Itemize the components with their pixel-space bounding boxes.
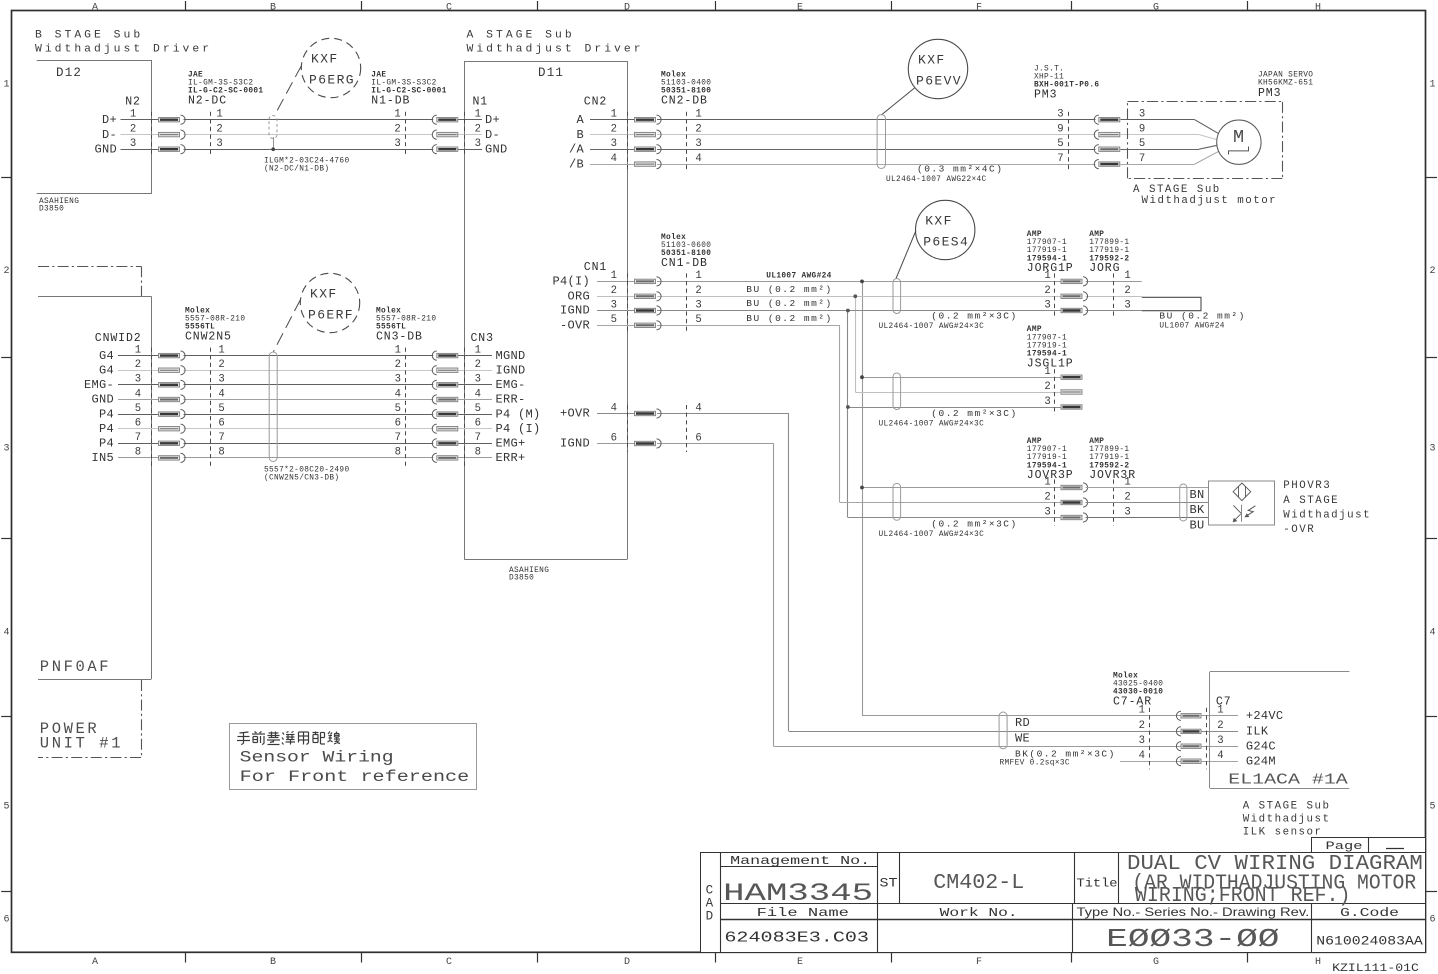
svg-text:KZIL111-01C: KZIL111-01C (1332, 963, 1419, 974)
svg-text:ERR-: ERR- (496, 393, 526, 407)
wire CNWID2-7 (P4) to CN3-7 (EMG+) (118, 443, 492, 445)
svg-text:AMP: AMP (1027, 326, 1042, 334)
svg-text:6: 6 (475, 418, 481, 430)
svg-text:1: 1 (1217, 705, 1223, 717)
svg-text:1: 1 (475, 109, 481, 121)
svg-text:B: B (270, 957, 276, 968)
svg-text:UNIT #1: UNIT #1 (40, 735, 123, 753)
svg-text:F: F (976, 2, 982, 13)
svg-text:For Front reference: For Front reference (240, 768, 470, 786)
connector label stack JAE N1-DB (371, 71, 446, 107)
svg-text:2: 2 (395, 359, 401, 371)
svg-text:EMG+: EMG+ (496, 437, 526, 451)
svg-text:Management No.: Management No. (730, 854, 870, 868)
svg-text:5: 5 (3, 802, 9, 813)
wire net -OVR (CN1-5 to JOVR3P-2) (597, 325, 1061, 502)
svg-text:JAE: JAE (371, 71, 386, 79)
svg-text:5: 5 (611, 314, 617, 326)
wire net D+ (N2-1 to N1-1) (121, 119, 483, 121)
svg-text:D: D (706, 910, 715, 924)
svg-text:P4(I): P4(I) (552, 275, 590, 289)
wires JOVR3R to sensor PHOVR3 (BN/BK/BU) (1086, 488, 1209, 518)
connector CN3 (driver side) with contacts CN3-DB (395, 332, 541, 466)
svg-text:8: 8 (218, 447, 224, 459)
svg-text:3: 3 (475, 374, 481, 386)
svg-text:177907-1: 177907-1 (1027, 239, 1067, 247)
svg-text:-OVR: -OVR (1283, 524, 1315, 536)
cable spec (0.3mm2 x4C) UL2464 (886, 164, 1003, 185)
svg-text:2: 2 (1044, 285, 1050, 297)
svg-text:177919-1: 177919-1 (1027, 454, 1067, 462)
svg-text:3: 3 (695, 138, 701, 150)
connector label stack J.S.T. PM3 (1034, 65, 1099, 101)
svg-text:IL-GM-3S-S3C2: IL-GM-3S-S3C2 (371, 80, 436, 88)
svg-text:3: 3 (1057, 109, 1063, 121)
svg-text:PNF0AF: PNF0AF (40, 658, 111, 676)
svg-text:2: 2 (130, 123, 136, 135)
svg-text:ERR+: ERR+ (496, 451, 526, 465)
svg-text:CM402-L: CM402-L (933, 872, 1024, 895)
svg-text:5: 5 (218, 403, 224, 415)
svg-text:3: 3 (218, 374, 224, 386)
svg-text:2: 2 (216, 123, 222, 135)
wire CNWID2-1 (G4) to CN3-1 (MGND) (118, 355, 492, 357)
svg-text:MGND: MGND (496, 349, 526, 363)
svg-text:4: 4 (1429, 628, 1435, 639)
svg-text:P6ERF: P6ERF (308, 307, 354, 322)
svg-text:9: 9 (1139, 123, 1145, 135)
svg-text:(0.3 mm²×4C): (0.3 mm²×4C) (917, 164, 1003, 175)
svg-text:KXF: KXF (918, 53, 946, 68)
svg-text:EL1ACA #1A: EL1ACA #1A (1228, 773, 1348, 789)
svg-text:N2: N2 (125, 96, 141, 109)
connector N2 (driver side) with contacts N2-DC (94, 96, 222, 158)
connector label stack Molex CN2-DB (661, 71, 711, 107)
svg-text:P4: P4 (99, 422, 114, 436)
svg-text:6: 6 (218, 418, 224, 430)
svg-text:+OVR: +OVR (560, 407, 590, 421)
svg-text:G.Code: G.Code (1340, 906, 1399, 920)
svg-text:E: E (797, 2, 803, 13)
svg-text:UL2464-1007 AWG#24×3C: UL2464-1007 AWG#24×3C (879, 323, 985, 331)
svg-text:2: 2 (1139, 720, 1145, 732)
svg-text:A STAGE: A STAGE (1283, 495, 1339, 507)
wire net +OVR (CN1-4 to C7-2) (597, 414, 1238, 732)
svg-text:JOVR3R: JOVR3R (1089, 469, 1136, 482)
svg-text:(0.2 mm²×3C): (0.2 mm²×3C) (931, 519, 1017, 530)
svg-text:IGND: IGND (560, 437, 590, 451)
svg-text:UL1007 AWG#24: UL1007 AWG#24 (766, 272, 831, 280)
svg-text:6: 6 (1429, 915, 1435, 926)
svg-text:P6ES4: P6ES4 (923, 234, 969, 249)
svg-text:3: 3 (475, 138, 481, 150)
svg-text:C: C (446, 2, 452, 13)
svg-text:KXF: KXF (310, 287, 338, 302)
cable marker oval CNW2N5/CN3-DB (264, 300, 350, 483)
wire color labels RD/WE/BK + cable spec (1000, 716, 1116, 768)
svg-text:ORG: ORG (567, 290, 590, 304)
svg-text:A: A (576, 113, 584, 127)
svg-text:ILK: ILK (1246, 725, 1269, 739)
svg-text:1: 1 (218, 344, 224, 356)
svg-text:IN5: IN5 (91, 451, 114, 465)
svg-text:51103-0400: 51103-0400 (661, 80, 711, 88)
svg-text:1: 1 (475, 344, 481, 356)
connector label stack AMP JOVR3R (1089, 438, 1136, 482)
connector label stack AMP JORG1P (1027, 231, 1074, 275)
svg-text:E: E (797, 957, 803, 968)
svg-text:Sensor Wiring: Sensor Wiring (240, 749, 394, 767)
svg-text:IL-GM-3S-S3C2: IL-GM-3S-S3C2 (188, 80, 253, 88)
svg-text:N1: N1 (473, 96, 489, 109)
cable marker oval JOVR cable (879, 483, 1018, 539)
svg-text:4: 4 (135, 388, 141, 400)
connector CN2 (driver side) with contacts CN2-DB (569, 96, 702, 173)
cable marker oval N2-DC/N1-DB (269, 66, 302, 152)
svg-text:2: 2 (1044, 491, 1050, 503)
svg-text:177899-1: 177899-1 (1089, 239, 1129, 247)
svg-text:2: 2 (3, 266, 9, 277)
svg-text:4: 4 (695, 153, 701, 165)
svg-text:624083E3.C03: 624083E3.C03 (724, 930, 869, 947)
svg-text:3: 3 (1139, 735, 1145, 747)
connector label stack Molex CNW2N5 (185, 307, 245, 343)
connector label stack JAE N2-DC (188, 71, 263, 107)
svg-text:3: 3 (1429, 444, 1435, 455)
svg-text:G24M: G24M (1246, 754, 1276, 768)
svg-text:P4 (M): P4 (M) (496, 407, 541, 421)
svg-text:5557-08R-210: 5557-08R-210 (376, 316, 436, 324)
svg-text:B STAGE Sub: B STAGE Sub (35, 30, 143, 42)
cable marker oval JSGL cable (879, 373, 1018, 428)
wire net D- (N2-2 to N1-2) (121, 134, 483, 136)
svg-text:3: 3 (130, 138, 136, 150)
cable marker oval CN1 cable (JORG) (879, 231, 1018, 331)
svg-text:2: 2 (1124, 285, 1130, 297)
svg-text:43025-0400: 43025-0400 (1113, 681, 1163, 689)
svg-text:5557-08R-210: 5557-08R-210 (185, 316, 245, 324)
svg-text:JOVR3P: JOVR3P (1027, 469, 1074, 482)
svg-text:2: 2 (695, 123, 701, 135)
svg-text:Molex: Molex (661, 234, 686, 242)
svg-text:2: 2 (611, 123, 617, 135)
svg-text:D+: D+ (102, 113, 117, 127)
svg-text:3: 3 (216, 138, 222, 150)
svg-text:8: 8 (395, 447, 401, 459)
svg-text:1: 1 (130, 109, 136, 121)
svg-text:4: 4 (611, 402, 617, 414)
svg-text:7: 7 (1139, 153, 1145, 165)
svg-text:-OVR: -OVR (560, 319, 590, 333)
svg-text:1: 1 (1124, 270, 1130, 282)
svg-text:IGND: IGND (496, 363, 526, 377)
wire net ORG (CN1-2 to JORG1P-2/JSGL1P-2) (597, 294, 1142, 392)
svg-text:177919-1: 177919-1 (1027, 247, 1067, 255)
svg-text:JAE: JAE (188, 71, 203, 79)
svg-text:2: 2 (1217, 720, 1223, 732)
svg-text:JORG: JORG (1089, 262, 1120, 275)
svg-text:CN2-DB: CN2-DB (661, 95, 708, 108)
svg-text:Molex: Molex (376, 307, 401, 315)
svg-text:G4: G4 (99, 349, 114, 363)
wire CNWID2-3 (EMG-) to CN3-3 (EMG-) (118, 384, 492, 386)
svg-text:Type No.- Series No.- Drawing: Type No.- Series No.- Drawing Rev. (1077, 905, 1310, 919)
svg-text:Work No.: Work No. (940, 906, 1018, 920)
cable marker oval sensor cable (1180, 484, 1187, 521)
svg-text:EMG-: EMG- (496, 378, 526, 392)
connector CN1 (driver side) with contacts CN1-DB (552, 261, 701, 452)
connector label stack Molex C7-AR (1113, 672, 1163, 708)
svg-text:Widthadjust: Widthadjust (1283, 510, 1371, 522)
svg-text:RD: RD (1015, 716, 1030, 730)
svg-text:6: 6 (135, 418, 141, 430)
wire net IGND (CN1-3 to JORG1P-3/JSGL1P-3/JOVR3P-3) (597, 309, 1142, 518)
svg-text:B: B (576, 128, 584, 142)
connector label stack AMP JSGL1P (1027, 326, 1074, 370)
svg-text:51103-0600: 51103-0600 (661, 242, 711, 250)
svg-text:N610024083AA: N610024083AA (1316, 934, 1423, 949)
svg-text:(0.2 mm²×3C): (0.2 mm²×3C) (931, 408, 1017, 419)
svg-text:(N2-DC/N1-DB): (N2-DC/N1-DB) (264, 166, 329, 174)
svg-text:G4: G4 (99, 363, 114, 377)
wire color labels BN/BK/BU (1190, 488, 1206, 533)
connector label stack Molex CN3-DB (376, 307, 436, 343)
svg-text:2: 2 (475, 123, 481, 135)
wire net GND (N2-3 to N1-3) (121, 149, 483, 151)
svg-text:G24C: G24C (1246, 739, 1276, 753)
svg-text:KXF: KXF (925, 214, 953, 229)
svg-text:3: 3 (1124, 299, 1130, 311)
svg-text:6: 6 (3, 915, 9, 926)
cable marker oval motor cable (877, 88, 914, 169)
svg-text:P4 (I): P4 (I) (496, 422, 541, 436)
svg-text:5: 5 (395, 403, 401, 415)
svg-text:N1-DB: N1-DB (371, 95, 410, 108)
svg-text:3: 3 (611, 138, 617, 150)
svg-text:3: 3 (1217, 735, 1223, 747)
svg-text:/B: /B (569, 157, 584, 171)
svg-text:5: 5 (135, 403, 141, 415)
svg-text:2: 2 (135, 359, 141, 371)
balloon KXF P6ERF (300, 273, 359, 332)
svg-text:UL1007 AWG#24: UL1007 AWG#24 (1159, 323, 1224, 331)
svg-text:BU (0.2 mm²): BU (0.2 mm²) (746, 313, 832, 324)
connector pair JOVR3P / JOVR3R (1044, 476, 1130, 525)
svg-text:Molex: Molex (1113, 672, 1138, 680)
svg-text:BU: BU (1190, 519, 1205, 533)
svg-text:(CNW2N5/CN3-DB): (CNW2N5/CN3-DB) (264, 475, 339, 483)
svg-text:GND: GND (91, 393, 114, 407)
connector pair JORG1P / JORG (1044, 270, 1130, 318)
svg-text:CN3: CN3 (471, 332, 494, 345)
svg-text:5: 5 (1057, 138, 1063, 150)
svg-text:CNWID2: CNWID2 (95, 332, 142, 345)
svg-text:3: 3 (1044, 299, 1050, 311)
connector N1 (A-stage driver side) with contacts N1-DB (394, 96, 507, 158)
wire net CN2-4 (/B) to motor PM3 (590, 151, 1219, 164)
wire net P4(I) (CN1-1 to JORG1P-1/JSGL1P-1/JOVR3P-1/C7-1) (597, 280, 1238, 716)
wire CNWID2-5 (P4) to CN3-5 (P4 (M)) (118, 414, 492, 416)
svg-text:1: 1 (3, 80, 9, 91)
svg-text:7: 7 (135, 432, 141, 444)
wire CNWID2-2 (G4) to CN3-2 (IGND) (118, 370, 492, 372)
svg-text:UL2464-1007 AWG#24×3C: UL2464-1007 AWG#24×3C (879, 420, 985, 428)
balloon KXF P6ERG (301, 38, 360, 97)
svg-text:PHOVR3: PHOVR3 (1283, 480, 1331, 492)
svg-text:EØØ33-ØØ: EØØ33-ØØ (1106, 924, 1279, 954)
svg-text:4: 4 (1139, 750, 1145, 762)
connector C7-AR (Molex) (1139, 705, 1207, 770)
svg-text:H: H (1315, 957, 1321, 968)
connector label stack Molex CN1-DB (661, 234, 711, 270)
svg-text:2: 2 (394, 123, 400, 135)
driver unit D11 (A STAGE Sub Widthadjust Driver) (464, 30, 643, 583)
connector JSGL1P (unmated) (1044, 366, 1082, 415)
svg-text:177907-1: 177907-1 (1027, 334, 1067, 342)
svg-text:CN3-DB: CN3-DB (376, 331, 423, 344)
svg-text:AMP: AMP (1089, 231, 1104, 239)
svg-text:CN1-DB: CN1-DB (661, 257, 708, 270)
balloon KXF P6EVV (908, 39, 967, 98)
wire net IGND (CN1-6 to C7-3) (597, 444, 1238, 747)
svg-text:6: 6 (395, 418, 401, 430)
svg-text:1: 1 (611, 109, 617, 121)
svg-text:XHP-11: XHP-11 (1034, 74, 1064, 82)
svg-text:8: 8 (475, 447, 481, 459)
svg-text:3: 3 (1044, 506, 1050, 518)
svg-text:C: C (706, 884, 715, 898)
svg-text:P4: P4 (99, 407, 114, 421)
svg-text:Widthadjust motor: Widthadjust motor (1142, 195, 1278, 207)
svg-text:7: 7 (395, 432, 401, 444)
svg-text:177919-1: 177919-1 (1089, 454, 1129, 462)
svg-text:1: 1 (611, 270, 617, 282)
svg-text:F: F (976, 957, 982, 968)
svg-text:6: 6 (611, 432, 617, 444)
svg-text:3: 3 (1044, 396, 1050, 408)
svg-text:1: 1 (216, 109, 222, 121)
wire CNWID2-4 (GND) to CN3-4 (ERR-) (118, 399, 492, 401)
svg-text:5: 5 (475, 403, 481, 415)
svg-text:8: 8 (135, 447, 141, 459)
svg-text:4: 4 (475, 388, 481, 400)
svg-text:IGND: IGND (560, 304, 590, 318)
sheet code KZIL111-01C (1332, 963, 1419, 974)
svg-text:2: 2 (611, 285, 617, 297)
svg-text:ST: ST (880, 876, 898, 891)
svg-text:JORG1P: JORG1P (1027, 262, 1074, 275)
svg-text:PM3: PM3 (1258, 87, 1281, 100)
svg-text:CN1: CN1 (584, 261, 607, 274)
svg-text:C: C (446, 957, 452, 968)
svg-text:Widthadjust Driver: Widthadjust Driver (35, 44, 212, 56)
svg-text:RMFEV 0.2sq×3C: RMFEV 0.2sq×3C (1000, 760, 1070, 768)
svg-text:JAPAN SERVO: JAPAN SERVO (1258, 72, 1313, 80)
svg-text:5557*2-08C20-2490: 5557*2-08C20-2490 (264, 467, 350, 475)
wire net CN2-2 (B) to motor PM3 (590, 135, 1217, 140)
svg-text:2: 2 (695, 285, 701, 297)
svg-text:9: 9 (1057, 123, 1063, 135)
svg-text:P4: P4 (99, 437, 114, 451)
svg-text:Molex: Molex (185, 307, 210, 315)
svg-text:GND: GND (94, 142, 117, 156)
svg-text:A: A (92, 957, 98, 968)
svg-text:N2-DC: N2-DC (188, 95, 227, 108)
svg-text:5: 5 (1429, 802, 1435, 813)
svg-text:GND: GND (485, 142, 508, 156)
svg-text:7: 7 (218, 432, 224, 444)
svg-text:A STAGE Sub: A STAGE Sub (467, 30, 575, 42)
svg-text:3: 3 (695, 299, 701, 311)
svg-text:3: 3 (1139, 109, 1145, 121)
svg-text:BU (0.2 mm²): BU (0.2 mm²) (1159, 311, 1245, 322)
balloon KXF P6ES4 (916, 200, 975, 259)
power unit PNF0AF box (38, 266, 152, 757)
wire net CN2-3 (/A) to motor PM3 (590, 145, 1217, 149)
svg-text:5: 5 (695, 314, 701, 326)
svg-text:4: 4 (1217, 750, 1223, 762)
svg-text:3: 3 (611, 299, 617, 311)
svg-text:Title: Title (1077, 877, 1118, 891)
svg-text:D: D (624, 957, 630, 968)
svg-text:1: 1 (135, 344, 141, 356)
svg-text:D12: D12 (56, 66, 82, 80)
svg-text:177919-1: 177919-1 (1089, 247, 1129, 255)
svg-text:+24VC: +24VC (1246, 709, 1284, 723)
svg-text:G: G (1153, 957, 1159, 968)
connector label stack AMP JOVR3P (1027, 438, 1074, 482)
wire CNWID2-8 (IN5) to CN3-8 (ERR+) (118, 457, 492, 459)
wire net CN2-1 (A) to motor PM3 (590, 120, 1219, 134)
svg-text:4: 4 (395, 388, 401, 400)
svg-text:P6ERG: P6ERG (309, 72, 355, 87)
svg-text:177907-1: 177907-1 (1027, 446, 1067, 454)
svg-text:BK(0.2 mm²×3C): BK(0.2 mm²×3C) (1015, 749, 1116, 760)
svg-text:H: H (1315, 2, 1321, 13)
photo sensor PHOVR3 (A STAGE Widthadjust -OVR) (1209, 480, 1372, 536)
svg-text:/A: /A (569, 142, 585, 156)
svg-text:Molex: Molex (661, 71, 686, 79)
wire spec labels BU / UL1007 on CN1 wires (746, 272, 832, 324)
svg-text:2: 2 (1044, 381, 1050, 393)
svg-text:PM3: PM3 (1034, 89, 1057, 102)
driver unit D12 (B STAGE Sub Widthadjust Driver) (35, 30, 212, 214)
wire stub G24M (C7-4) (1120, 761, 1238, 763)
svg-text:177919-1: 177919-1 (1027, 343, 1067, 351)
motor PM3 (JAPAN SERVO KH56KMZ-651), A STAGE Sub Widthadjust motor (1128, 72, 1314, 208)
svg-text:AMP: AMP (1027, 438, 1042, 446)
svg-text:7: 7 (1057, 153, 1063, 165)
svg-text:AMP: AMP (1089, 438, 1104, 446)
svg-text:P6EVV: P6EVV (916, 73, 962, 88)
note box: sensor wiring for front reference (230, 724, 477, 790)
svg-text:3: 3 (3, 444, 9, 455)
svg-text:3: 3 (135, 374, 141, 386)
svg-text:Widthadjust Driver: Widthadjust Driver (467, 44, 644, 56)
svg-text:4: 4 (3, 628, 9, 639)
cable marker oval C7 cable (999, 712, 1007, 749)
svg-text:HAM3345: HAM3345 (723, 879, 873, 908)
svg-text:ILGM*2-03C24-4760: ILGM*2-03C24-4760 (264, 158, 350, 166)
svg-text:A: A (92, 2, 98, 13)
svg-text:D-: D- (102, 128, 117, 142)
svg-text:3: 3 (394, 138, 400, 150)
svg-text:D3850: D3850 (509, 575, 534, 583)
svg-text:D-: D- (485, 128, 500, 142)
svg-text:2: 2 (1429, 266, 1435, 277)
title block (701, 838, 1426, 955)
connector label stack AMP JORG (1089, 231, 1129, 275)
